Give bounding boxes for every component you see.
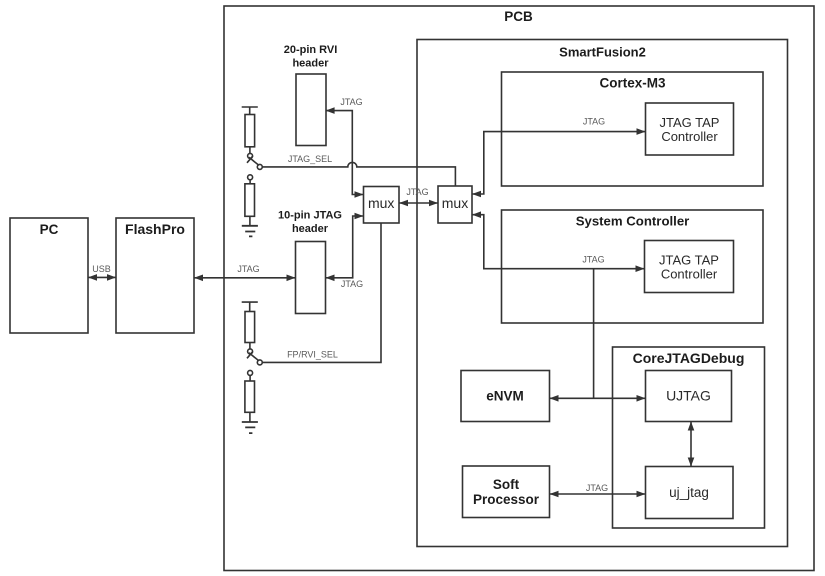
svg-text:USB: USB xyxy=(92,264,111,274)
svg-text:SmartFusion2: SmartFusion2 xyxy=(559,45,646,60)
resistor R4 top contact xyxy=(248,370,253,375)
wire UJTAG to uj_jtag xyxy=(690,422,692,467)
svg-text:Cortex-M3: Cortex-M3 xyxy=(599,76,666,91)
ground GND2 xyxy=(242,422,258,433)
svg-text:eNVM: eNVM xyxy=(486,389,524,404)
CoreJTAGDebug block xyxy=(613,347,765,528)
10-pin JTAG header xyxy=(296,242,326,314)
Soft Processor block xyxy=(463,466,550,518)
wire USB: PC to FlashPro xyxy=(88,276,116,278)
svg-text:Controller: Controller xyxy=(661,129,718,144)
mux U1 (on PCB) xyxy=(364,187,400,224)
resistor R4 (pull-down) xyxy=(245,381,255,412)
svg-text:JTAG TAP: JTAG TAP xyxy=(659,253,719,268)
wire JTAG: mux U2 to Cortex-M3 TAP xyxy=(472,132,646,194)
svg-text:PC: PC xyxy=(40,222,59,237)
pull-up rail tick B xyxy=(242,302,258,311)
ground GND1 xyxy=(242,226,258,237)
wire JTAG: 10-pin header to mux U1 xyxy=(326,216,364,278)
svg-text:header: header xyxy=(292,223,329,235)
svg-text:mux: mux xyxy=(368,195,394,211)
svg-text:CoreJTAGDebug: CoreJTAGDebug xyxy=(633,350,745,366)
svg-text:JTAG: JTAG xyxy=(583,117,605,127)
FlashPro block xyxy=(116,218,194,333)
PC block xyxy=(10,218,88,333)
svg-text:Controller: Controller xyxy=(661,267,718,282)
svg-text:header: header xyxy=(292,58,329,70)
svg-text:PCB: PCB xyxy=(504,9,533,24)
switch SW2 pole contact xyxy=(248,349,253,354)
svg-text:10-pin JTAG: 10-pin JTAG xyxy=(278,210,342,222)
resistor R1 (pull-up to JTAG_SEL switch) xyxy=(245,115,255,147)
switch SW1 throw contact xyxy=(257,164,262,169)
PCB board outline xyxy=(224,6,814,571)
svg-text:JTAG: JTAG xyxy=(341,279,363,289)
wire JTAG down to eNVM/UJTAG junction xyxy=(593,269,595,399)
svg-text:FlashPro: FlashPro xyxy=(125,221,185,237)
wire JTAG_SEL: switch SW1 to mux U2 select xyxy=(262,162,455,186)
wire R2 to ground xyxy=(249,216,251,226)
wire JTAG: 20-pin header to mux U1 xyxy=(326,111,364,195)
switch SW1 blade xyxy=(247,156,259,165)
svg-text:20-pin RVI: 20-pin RVI xyxy=(284,44,338,56)
Cortex-M3 block xyxy=(502,72,764,186)
wire eNVM to UJTAG xyxy=(550,397,646,399)
wire R1 bottom to switch pole xyxy=(249,147,251,153)
wire JTAG: FlashPro to 10-pin header xyxy=(194,277,296,279)
svg-text:JTAG: JTAG xyxy=(582,255,604,265)
svg-text:JTAG_SEL: JTAG_SEL xyxy=(288,154,332,164)
wire R3 bottom to switch pole xyxy=(249,343,251,349)
switch SW2 throw contact xyxy=(257,360,262,365)
wire contact to R2 xyxy=(249,180,251,184)
pull-up rail tick A xyxy=(242,107,258,115)
eNVM block xyxy=(461,371,550,422)
svg-text:Processor: Processor xyxy=(473,492,540,507)
svg-text:JTAG: JTAG xyxy=(340,97,362,107)
wire JTAG: mux U2 to System Controller TAP xyxy=(472,215,645,269)
wire JTAG: Soft Processor to uj_jtag xyxy=(550,493,646,495)
UJTAG block xyxy=(646,371,732,422)
JTAG TAP Controller (Cortex-M3) xyxy=(646,103,734,155)
resistor R3 (pull-up to FP/RVI_SEL switch) xyxy=(245,312,255,343)
wire FP/RVI_SEL: switch SW2 to mux U1 select xyxy=(262,223,381,362)
JTAG TAP Controller (System Controller) xyxy=(645,241,734,293)
20-pin RVI header xyxy=(296,74,326,146)
svg-text:uj_jtag: uj_jtag xyxy=(669,485,709,500)
svg-text:UJTAG: UJTAG xyxy=(666,388,711,404)
svg-text:JTAG: JTAG xyxy=(586,483,608,493)
System Controller block xyxy=(502,210,764,323)
uj_jtag block xyxy=(646,467,734,519)
switch SW2 blade xyxy=(247,352,259,361)
SmartFusion2 chip outline xyxy=(417,40,788,547)
resistor R2 (pull-down) xyxy=(245,184,255,217)
svg-text:Soft: Soft xyxy=(493,477,520,492)
mux U2 (in SmartFusion2) xyxy=(438,186,472,223)
svg-text:JTAG: JTAG xyxy=(237,264,259,274)
svg-text:mux: mux xyxy=(442,195,468,211)
svg-text:JTAG TAP: JTAG TAP xyxy=(660,115,720,130)
wire R4 to ground xyxy=(249,412,251,422)
wire JTAG: mux U1 to mux U2 xyxy=(399,202,438,204)
switch SW1 pole contact xyxy=(248,153,253,158)
resistor R2 top contact xyxy=(248,175,253,180)
wire contact to R4 xyxy=(249,375,251,381)
svg-text:FP/RVI_SEL: FP/RVI_SEL xyxy=(287,350,338,360)
svg-text:JTAG: JTAG xyxy=(406,187,428,197)
svg-text:System Controller: System Controller xyxy=(576,214,690,229)
